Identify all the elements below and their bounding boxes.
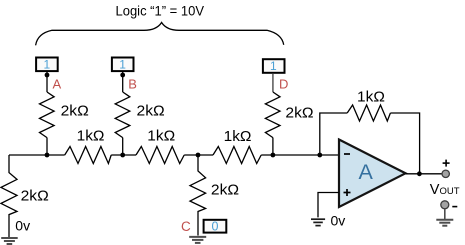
resistor R 2k left terminator xyxy=(1,155,17,237)
svg-text:1: 1 xyxy=(270,59,277,73)
svg-text:C: C xyxy=(181,219,191,234)
svg-text:0v: 0v xyxy=(15,218,30,234)
svg-text:Logic “1” = 10V: Logic “1” = 10V xyxy=(116,3,205,19)
ground (op-amp) xyxy=(311,219,325,225)
node B rail dot xyxy=(120,153,125,158)
node B junction dot xyxy=(120,73,125,78)
wire box A to resistor xyxy=(46,72,48,92)
resistor R 2k to input C xyxy=(190,155,206,236)
svg-text:2kΩ: 2kΩ xyxy=(137,103,165,120)
resistor R 1k between C and D xyxy=(213,147,261,164)
minus sign xyxy=(452,206,457,208)
svg-text:1: 1 xyxy=(43,57,50,71)
input box C value 0 xyxy=(204,220,227,233)
brace over logic inputs xyxy=(36,23,284,46)
svg-text:1kΩ: 1kΩ xyxy=(224,128,252,145)
svg-text:2kΩ: 2kΩ xyxy=(211,181,239,198)
output junction dot xyxy=(417,171,422,176)
svg-text:A: A xyxy=(359,160,374,184)
ground (C) xyxy=(189,237,206,243)
wire op-amp plus input to ground xyxy=(318,193,339,218)
wire resistor A to rail xyxy=(46,138,48,155)
svg-text:1: 1 xyxy=(119,57,126,71)
rail wire segment B xyxy=(111,154,136,156)
minus output terminal xyxy=(441,201,449,209)
plus sign xyxy=(443,160,450,167)
wire minus terminal to ground xyxy=(444,209,446,219)
resistor R 1k feedback xyxy=(347,105,390,121)
rail wire segment to op-amp xyxy=(261,154,339,156)
wire box D to resistor xyxy=(272,74,274,92)
ground (minus terminal) xyxy=(436,220,453,226)
input box B value 1 xyxy=(112,58,134,72)
ground (left) xyxy=(1,238,18,244)
feedback wire to output xyxy=(390,113,419,174)
resistor R 2k under D xyxy=(265,92,280,138)
feedback wire from rail up xyxy=(320,113,347,155)
node C rail dot xyxy=(196,153,201,158)
resistor R 2k under B xyxy=(115,92,130,138)
svg-text:1kΩ: 1kΩ xyxy=(147,128,175,145)
op-amp U1 xyxy=(339,140,406,208)
svg-text:D: D xyxy=(279,77,288,92)
input box A value 1 xyxy=(36,58,58,72)
svg-text:1kΩ: 1kΩ xyxy=(77,128,105,145)
plus output terminal xyxy=(442,170,449,177)
svg-text:2kΩ: 2kΩ xyxy=(61,103,89,120)
node D rail dot xyxy=(271,153,276,158)
wire resistor D to rail xyxy=(272,138,274,155)
svg-text:A: A xyxy=(53,76,62,91)
resistor R 1k between A and B xyxy=(65,147,112,164)
input box D value 1 xyxy=(263,59,285,73)
node A rail dot xyxy=(45,153,50,158)
svg-text:2kΩ: 2kΩ xyxy=(285,104,313,121)
feedback junction dot xyxy=(317,153,322,158)
output wire xyxy=(406,173,442,175)
svg-text:0: 0 xyxy=(212,220,219,234)
svg-text:2kΩ: 2kΩ xyxy=(21,188,49,205)
rail wire segment C xyxy=(184,154,213,156)
resistor R 2k under A xyxy=(40,92,55,138)
wire resistor B to rail xyxy=(122,138,124,155)
wire box B to resistor xyxy=(122,72,124,92)
rail wire left segment xyxy=(9,154,65,156)
svg-text:0v: 0v xyxy=(331,212,346,228)
svg-text:1kΩ: 1kΩ xyxy=(357,88,385,105)
resistor R 1k between B and C xyxy=(136,147,184,164)
node A junction dot xyxy=(45,73,50,78)
svg-text:B: B xyxy=(128,76,137,91)
